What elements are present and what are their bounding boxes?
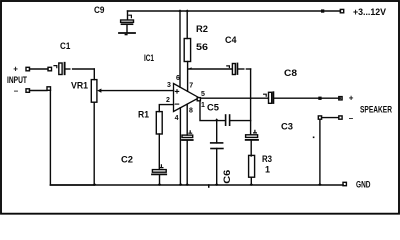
svg-text:C6: C6 xyxy=(222,170,232,184)
wire output node down xyxy=(250,98,252,135)
op-amp IC1 xyxy=(174,84,200,112)
wire pin 8 down xyxy=(186,104,188,135)
wire speaker minus down xyxy=(319,119,321,185)
terminal speaker minus xyxy=(339,116,342,119)
svg-text:3: 3 xyxy=(167,82,171,89)
wire pin 2 xyxy=(159,105,173,112)
wire pin 6 supply xyxy=(179,11,181,87)
wire ground rail xyxy=(50,184,343,186)
node C6 junction arrow xyxy=(215,118,219,120)
node VR1 rail junction xyxy=(92,183,97,185)
svg-text:+: + xyxy=(13,65,18,74)
wire C8 to speaker xyxy=(274,97,340,99)
wire R3 down xyxy=(250,177,252,185)
ground xyxy=(119,33,135,35)
node C6 rail xyxy=(214,183,219,185)
wire input minus xyxy=(30,90,48,92)
svg-text:+: + xyxy=(349,94,354,103)
svg-text:INPUT: INPUT xyxy=(7,75,27,85)
node R3 rail xyxy=(249,183,254,185)
capacitor C5 xyxy=(226,115,251,125)
svg-text:C8: C8 xyxy=(284,68,297,78)
node speaker plus junction xyxy=(318,97,321,100)
capacitor C2 xyxy=(152,165,166,185)
svg-text:7: 7 xyxy=(189,83,193,90)
wire VR1 bottom xyxy=(93,102,95,185)
wire input plus xyxy=(30,68,49,70)
wire to VR1 top xyxy=(93,69,95,80)
opamp plus sign xyxy=(175,90,178,93)
terminal +V xyxy=(340,9,343,12)
node speaker minus rail xyxy=(318,183,323,185)
node C2 rail junction xyxy=(157,183,162,185)
wire R1 to C2 xyxy=(158,134,160,169)
capacitor C3 xyxy=(246,130,258,156)
node supply junction xyxy=(321,9,324,12)
svg-text:+3...12V: +3...12V xyxy=(353,7,386,17)
wire C4 down xyxy=(250,69,252,98)
svg-text:R2: R2 xyxy=(196,24,208,34)
svg-text:8: 8 xyxy=(189,107,193,114)
svg-text:VR1: VR1 xyxy=(71,81,88,91)
opamp minus sign xyxy=(175,103,178,105)
svg-text:R1: R1 xyxy=(138,110,149,120)
svg-text:2: 2 xyxy=(166,97,170,104)
wire pin 4 down xyxy=(179,108,181,185)
terminal speaker plus xyxy=(339,97,342,100)
wire pin 1 to C5 xyxy=(200,101,225,121)
node output xyxy=(197,98,200,101)
capacitor C8 xyxy=(264,92,274,103)
svg-text:GND: GND xyxy=(356,179,371,189)
capacitor C6 xyxy=(211,121,223,185)
capacitor C1 xyxy=(54,63,94,75)
potentiometer VR1 xyxy=(91,80,101,103)
resistor R1 xyxy=(156,112,162,134)
svg-text:56: 56 xyxy=(196,42,208,52)
capacitor C4 xyxy=(188,64,251,75)
node rail nick xyxy=(208,184,210,188)
terminal GND xyxy=(343,182,346,185)
capacitor C7 bypass xyxy=(182,131,193,185)
wire input minus down xyxy=(50,90,94,185)
wire output xyxy=(201,97,269,99)
svg-text:C9: C9 xyxy=(94,5,105,15)
wire pin3 xyxy=(101,90,174,92)
node pin6 rail xyxy=(178,9,182,11)
resistor R2 xyxy=(184,11,190,91)
svg-text:C5: C5 xyxy=(207,102,219,112)
svg-text:5: 5 xyxy=(201,91,205,98)
svg-text:R3: R3 xyxy=(262,154,272,164)
terminal speaker minus left xyxy=(318,116,321,119)
node R2 rail xyxy=(185,9,189,11)
svg-text:C4: C4 xyxy=(225,35,237,45)
capacitor C9 xyxy=(121,11,134,32)
node pin4 rail xyxy=(178,183,183,185)
svg-text:C3: C3 xyxy=(281,122,293,132)
speck artifact xyxy=(313,137,315,139)
wire top supply rail xyxy=(128,10,341,12)
terminal input plus xyxy=(26,67,30,71)
node input minus pad xyxy=(47,87,51,91)
terminal input minus xyxy=(26,89,30,93)
svg-text:–: – xyxy=(349,114,354,123)
svg-text:SPEAKER: SPEAKER xyxy=(360,105,392,115)
node input plus pad xyxy=(48,67,52,71)
svg-text:1: 1 xyxy=(201,102,205,109)
svg-text:4: 4 xyxy=(175,115,179,122)
node pin8 rail xyxy=(185,183,190,185)
svg-text:–: – xyxy=(14,87,19,96)
wire speaker minus xyxy=(322,117,339,119)
svg-text:1: 1 xyxy=(265,165,270,175)
svg-text:C2: C2 xyxy=(121,154,133,164)
svg-text:C1: C1 xyxy=(60,41,70,51)
svg-text:IC1: IC1 xyxy=(144,53,154,63)
resistor R3 xyxy=(249,155,255,177)
